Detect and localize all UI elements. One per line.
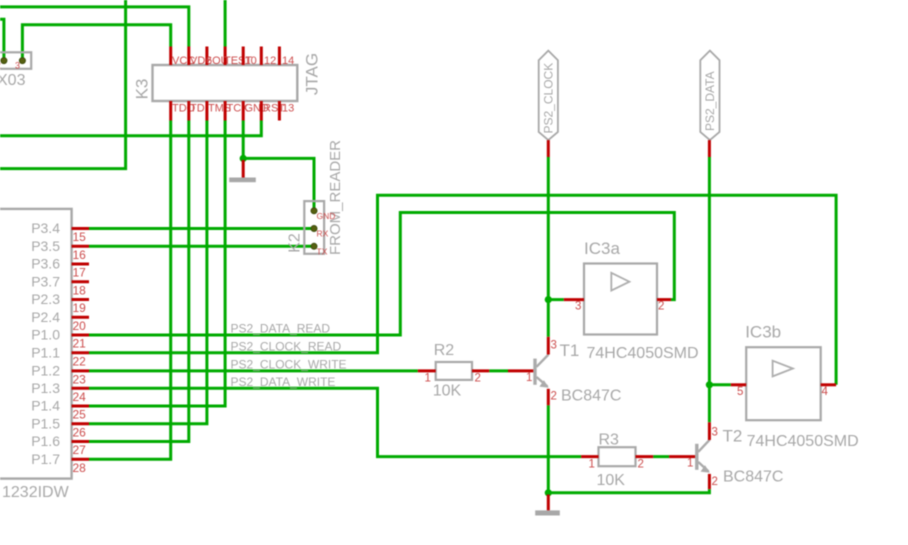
junction at JTAG GND / K2 GND	[240, 155, 247, 162]
transistor T2 BC847C	[669, 422, 783, 489]
svg-text:24: 24	[73, 390, 87, 404]
K3 pin GND (bottom 5)	[243, 101, 269, 121]
wire JTAG TDI to P1.6	[89, 121, 189, 442]
svg-text:18: 18	[73, 283, 87, 297]
svg-text:22: 22	[73, 354, 87, 368]
U1 pin 25 P1.4	[31, 398, 89, 422]
svg-text:3: 3	[15, 61, 20, 71]
wire JTAG TEST pin to top edge	[224, 0, 227, 47]
svg-text:16: 16	[73, 248, 87, 262]
svg-text:R2: R2	[434, 342, 455, 359]
svg-text:P1.0: P1.0	[31, 327, 60, 343]
svg-text:2: 2	[638, 459, 644, 471]
wire JTAG GND down to junction	[242, 121, 245, 159]
svg-text:19: 19	[73, 301, 87, 315]
resistor R3 10K	[581, 432, 653, 490]
wire ground junction to T2 emitter	[548, 489, 709, 493]
net flag PS2_CLOCK	[539, 51, 558, 157]
wire JTAG RST to left edge	[0, 121, 261, 136]
buffer IC3a 74HC4050SMD	[564, 239, 699, 362]
svg-text:RX: RX	[317, 229, 329, 239]
svg-text:TDI: TDI	[190, 103, 208, 115]
resistor R2 10K	[418, 342, 489, 400]
svg-text:1: 1	[425, 373, 431, 385]
svg-text:2: 2	[475, 373, 481, 385]
svg-text:P1.7: P1.7	[31, 451, 60, 467]
K2 pin 3 TX	[311, 243, 328, 256]
svg-text:FROM_READER: FROM_READER	[327, 140, 344, 255]
U1 pin 17 P3.6	[31, 256, 89, 280]
U1 pin 18 P3.7	[31, 273, 89, 297]
K2 pin 2 RX	[311, 226, 329, 239]
U1 pin 22 P1.1	[31, 344, 89, 368]
svg-text:13: 13	[282, 103, 294, 115]
svg-text:PS2_DATA: PS2_DATA	[703, 71, 717, 131]
svg-text:PS2_CLOCK: PS2_CLOCK	[542, 63, 556, 134]
U1 pin 20 P2.4	[31, 309, 89, 333]
svg-text:3: 3	[712, 427, 718, 439]
wire vertical x=125.6 to left edge	[0, 0, 126, 169]
svg-text:R3: R3	[599, 432, 620, 449]
svg-text:P1.1: P1.1	[31, 344, 60, 360]
svg-text:2: 2	[658, 301, 664, 313]
svg-text:BC847C: BC847C	[561, 388, 621, 405]
svg-text:PS2_CLOCK_WRITE: PS2_CLOCK_WRITE	[231, 357, 347, 371]
U1 pin 21 P1.0	[31, 327, 89, 351]
K2 pin 1 GND	[311, 208, 335, 221]
svg-text:IC3a: IC3a	[584, 239, 620, 258]
svg-text:4: 4	[822, 386, 829, 398]
K3 pin 14 (top 7)	[279, 47, 294, 68]
wire net PS2_DATA_WRITE P1.3 to R3 pin1	[89, 388, 581, 456]
wire net to JTAG pin VD2 (top horizontal y=7)	[0, 7, 189, 47]
U1 pin 26 P1.5	[31, 415, 89, 439]
connector K2 FROM_READER body	[287, 140, 345, 255]
X03 pin 2	[0, 58, 7, 71]
buffer IC3b 74HC4050SMD	[731, 323, 859, 451]
K3 pin TDI (bottom 2)	[189, 101, 208, 121]
svg-text:25: 25	[73, 408, 87, 422]
svg-text:12: 12	[264, 55, 276, 67]
svg-text:2: 2	[0, 61, 1, 71]
svg-text:26: 26	[73, 425, 87, 439]
svg-text:X03: X03	[0, 72, 26, 89]
K3 pin TMS (bottom 3)	[207, 101, 231, 121]
wire X03 pin2 to left edge	[0, 19, 4, 58]
net flag PS2_DATA	[700, 51, 719, 157]
svg-text:10K: 10K	[433, 383, 462, 400]
svg-text:1: 1	[526, 372, 532, 384]
svg-text:14: 14	[282, 55, 294, 67]
svg-text:K3: K3	[133, 79, 152, 100]
U1 pin 16 P3.5	[31, 238, 89, 262]
wire junction to K2 GND pin	[243, 158, 314, 209]
wire X03 pin3 to JTAG VCC pin	[22, 25, 170, 59]
K3 pin RST (bottom 6)	[261, 101, 285, 121]
K3 pin TEST (top 4)	[224, 47, 252, 68]
svg-text:P3.7: P3.7	[31, 273, 60, 289]
svg-text:JTAG: JTAG	[303, 53, 322, 95]
wire net PS2_CLOCK_READ P1.1 to IC3b pin4	[89, 195, 836, 385]
svg-text:P1.6: P1.6	[31, 433, 60, 449]
svg-text:P2.4: P2.4	[31, 309, 60, 325]
U1 pin 23 P1.2	[31, 362, 89, 386]
svg-text:1232IDW: 1232IDW	[2, 484, 70, 501]
svg-text:20: 20	[73, 319, 87, 333]
junction at PS2_DATA / IC3b pin5	[706, 381, 713, 388]
svg-text:17: 17	[73, 266, 87, 280]
svg-text:P2.3: P2.3	[31, 291, 60, 307]
U1 pin 28 P1.7	[31, 451, 89, 475]
svg-text:IC3b: IC3b	[745, 323, 781, 342]
svg-text:PS2_CLOCK_READ: PS2_CLOCK_READ	[231, 339, 342, 353]
svg-text:PS2_DATA_WRITE: PS2_DATA_WRITE	[231, 375, 336, 389]
svg-text:T1: T1	[560, 341, 580, 360]
K3 pin 6OU (top 3)	[206, 47, 229, 68]
U1 pin 19 P2.3	[31, 291, 89, 315]
K3 pin TDO (bottom 1)	[171, 101, 196, 121]
junction at ground / emitters	[545, 489, 552, 496]
svg-text:K2: K2	[287, 233, 304, 253]
wire net PS2_CLOCK_WRITE P1.2 to R2 pin1	[89, 369, 418, 372]
IC U1 MSP430 1232IDW body	[0, 209, 72, 501]
wire net PS2_DATA vertical	[708, 157, 711, 422]
svg-text:28: 28	[73, 461, 87, 475]
svg-text:1: 1	[589, 459, 595, 471]
svg-text:1: 1	[687, 458, 693, 470]
svg-text:P3.5: P3.5	[31, 238, 60, 254]
wire junction to IC3b pin5	[709, 383, 730, 386]
svg-text:5: 5	[737, 386, 743, 398]
wire T1 emitter to ground junction	[547, 405, 550, 493]
svg-text:74HC4050SMD: 74HC4050SMD	[747, 433, 859, 450]
ground symbol bottom	[535, 495, 560, 516]
svg-text:P3.4: P3.4	[31, 220, 60, 236]
svg-text:21: 21	[73, 337, 87, 351]
X03 pin 3	[15, 58, 25, 71]
svg-text:TX: TX	[317, 247, 328, 257]
K3 pin VCC (top 1)	[171, 47, 196, 68]
svg-text:74HC4050SMD: 74HC4050SMD	[587, 345, 699, 362]
svg-text:27: 27	[73, 443, 87, 457]
svg-text:P1.3: P1.3	[31, 380, 60, 396]
connector K3 JTAG body	[133, 53, 322, 101]
svg-text:P1.4: P1.4	[31, 398, 60, 414]
wire JTAG TCK to P1.4	[89, 121, 225, 407]
svg-text:BC847C: BC847C	[723, 469, 783, 486]
wire P3.4 to K2 RX	[89, 227, 314, 230]
svg-text:3: 3	[575, 301, 581, 313]
wire JTAG TDO to P1.7	[89, 121, 171, 460]
K3 pin 13 (bottom 7)	[279, 101, 294, 121]
svg-text:2: 2	[551, 391, 557, 403]
K3 pin 10 (top 5)	[243, 47, 257, 68]
svg-text:23: 23	[73, 372, 87, 386]
svg-text:2: 2	[712, 476, 718, 488]
svg-text:GND: GND	[317, 211, 336, 221]
wire net PS2_CLOCK vertical	[547, 157, 550, 337]
K3 pin VD2 (top 2)	[189, 47, 212, 68]
junction at PS2_CLOCK / IC3a pin3	[545, 296, 552, 303]
wire junction to IC3a pin3	[548, 298, 564, 301]
wire R2 pin2 to T1 base	[489, 369, 508, 372]
wire R3 pin2 to T2 base	[653, 455, 669, 458]
K3 pin 12 (top 6)	[261, 47, 276, 68]
svg-text:3: 3	[551, 340, 557, 352]
svg-text:P1.5: P1.5	[31, 415, 60, 431]
ground symbol near JTAG	[229, 160, 256, 182]
wire net PS2_DATA_READ P1.0 to IC3a pin2	[89, 213, 674, 336]
wire P3.5 to K2 TX	[89, 245, 314, 248]
connector X03 body	[0, 52, 31, 89]
U1 pin 15 P3.4	[31, 220, 89, 244]
svg-text:10: 10	[245, 55, 257, 67]
svg-text:P1.2: P1.2	[31, 362, 60, 378]
transistor T1 BC847C	[508, 337, 621, 406]
K3 pin TCK (bottom 4)	[225, 101, 249, 121]
U1 pin 24 P1.3	[31, 380, 89, 404]
svg-text:10K: 10K	[597, 472, 626, 489]
svg-text:15: 15	[73, 230, 87, 244]
svg-text:T2: T2	[723, 427, 743, 446]
svg-text:PS2_DATA_READ: PS2_DATA_READ	[231, 322, 331, 336]
svg-text:P3.6: P3.6	[31, 256, 60, 272]
U1 pin 27 P1.6	[31, 433, 89, 457]
wire JTAG TMS to P1.5	[89, 121, 207, 424]
